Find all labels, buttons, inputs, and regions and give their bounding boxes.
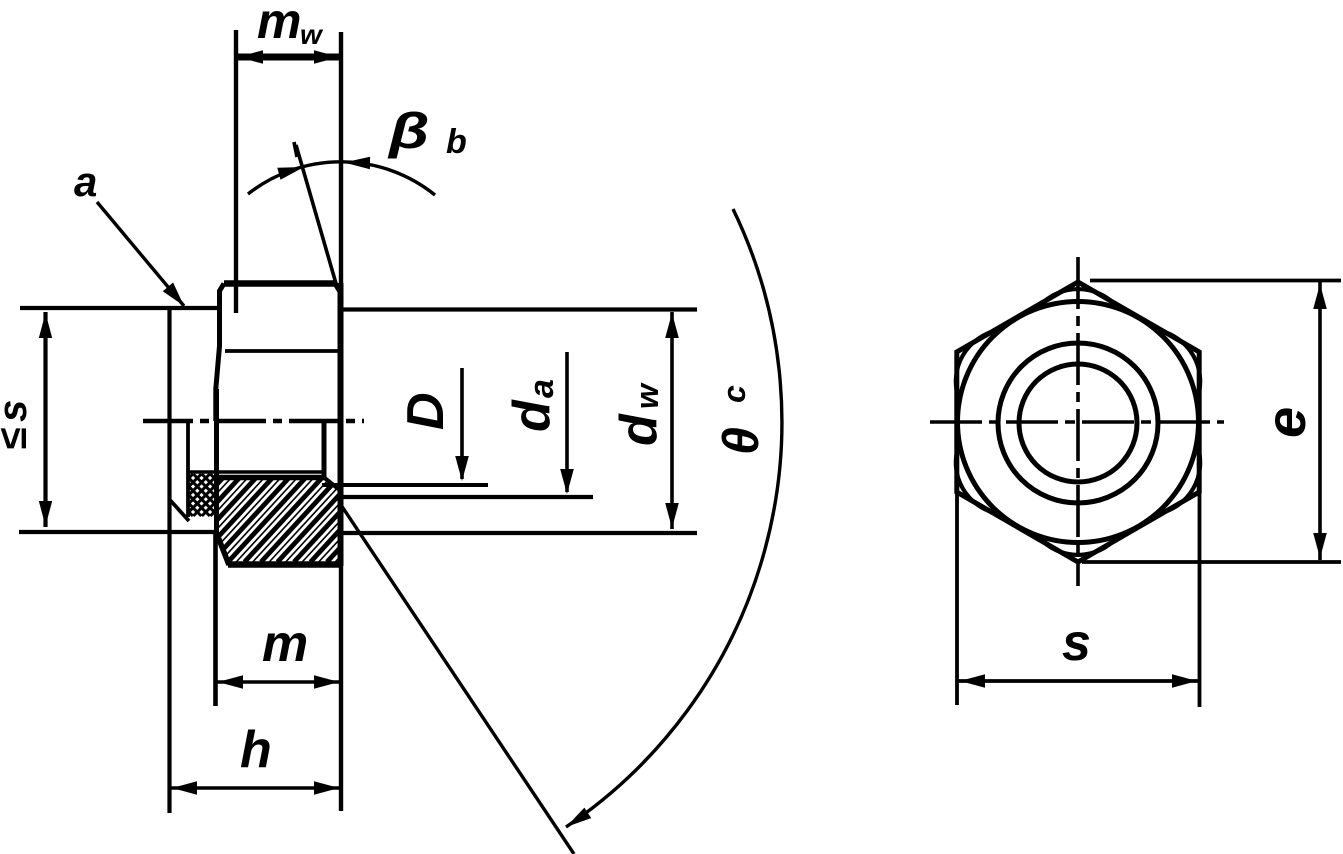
svg-text:w: w [300,19,324,50]
svg-text:≤s: ≤s [0,394,35,450]
svg-text:s: s [1062,614,1091,672]
svg-text:a: a [74,158,97,205]
svg-text:m: m [262,615,308,673]
svg-text:θ: θ [713,427,769,455]
svg-text:e: e [1254,407,1317,438]
svg-text:m: m [257,0,301,49]
svg-text:d: d [610,413,668,446]
svg-text:a: a [523,379,561,398]
svg-text:D: D [397,392,455,430]
svg-text:c: c [716,385,752,403]
svg-text:b: b [446,123,467,161]
svg-text:β: β [387,104,430,159]
svg-text:d: d [503,399,561,432]
svg-text:h: h [240,721,272,779]
svg-text:w: w [629,382,665,409]
